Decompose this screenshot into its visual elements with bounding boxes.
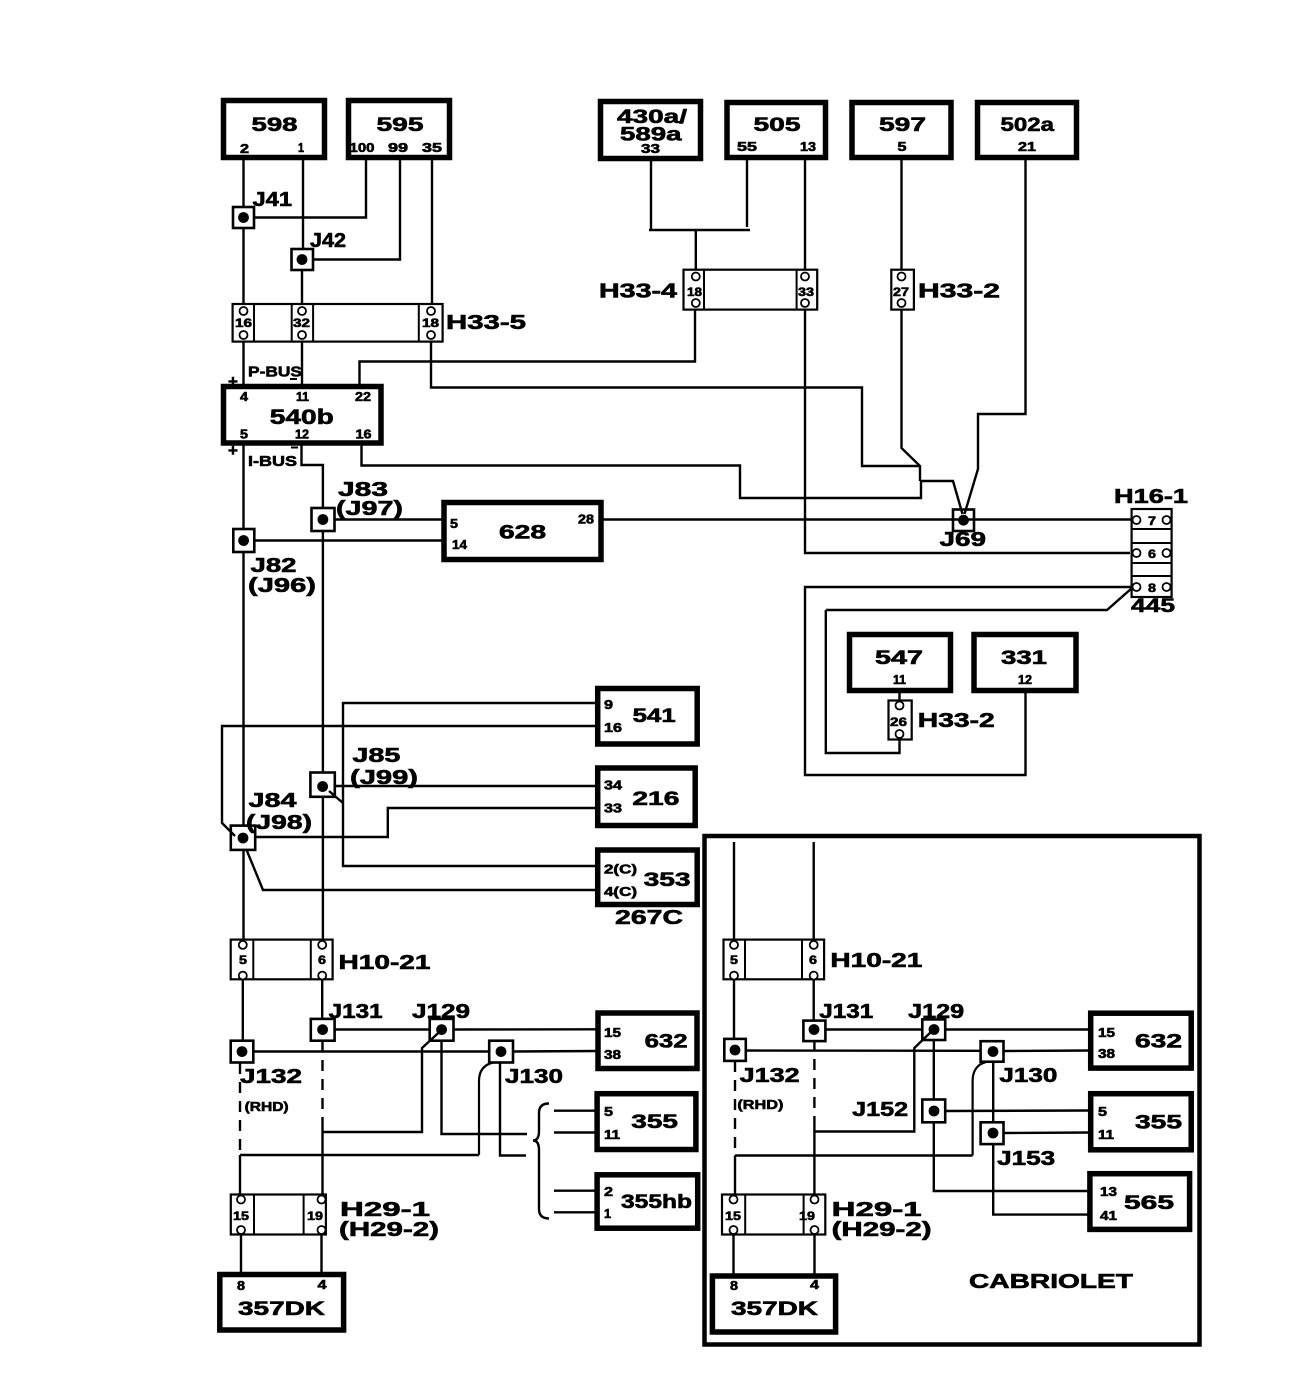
component 430a/589a xyxy=(601,102,701,159)
svg-text:J69: J69 xyxy=(940,529,987,551)
junction J131 xyxy=(311,1019,335,1041)
svg-text:27: 27 xyxy=(893,285,909,299)
wire 502a-21 to J69 xyxy=(965,158,1026,514)
svg-text:J130: J130 xyxy=(999,1065,1057,1087)
wire J132 down dashed (RHD) xyxy=(239,1063,241,1155)
wire H29-1 pin15 to 357DK-8 xyxy=(240,1235,242,1275)
wire J129 to 632-15 xyxy=(454,1028,599,1031)
connector H33-2 (pin 26) xyxy=(889,701,912,740)
cab junction J129 xyxy=(922,1019,945,1040)
wire J130 straight down xyxy=(500,1063,526,1156)
wire J131 column to H29-1 pin19 xyxy=(321,1122,323,1195)
cab wire J130 through J153 xyxy=(992,1062,994,1123)
wire 540b pin22 to H33-4 pin18 xyxy=(360,307,696,386)
cab wire J153 to 565-41 xyxy=(993,1144,1090,1215)
component 357DK xyxy=(220,1275,344,1331)
cab wire H10-21 pin6 to J131 xyxy=(813,980,815,1021)
svg-text:J131: J131 xyxy=(329,1001,383,1023)
svg-text:J130: J130 xyxy=(505,1066,563,1088)
wire H33-2 pin27 to J69 node xyxy=(902,307,921,481)
cab wire J129 to 632-15 xyxy=(945,1028,1090,1030)
svg-text:16: 16 xyxy=(604,721,622,735)
junction J42 xyxy=(292,249,314,270)
wire J132 to J130 xyxy=(254,1050,490,1052)
svg-text:+: + xyxy=(228,441,238,460)
svg-text:267C: 267C xyxy=(615,907,683,929)
wire J132 column to H29-1 pin15 xyxy=(239,1155,241,1195)
svg-text:(J98): (J98) xyxy=(246,812,312,834)
wire J85 down to H10-21 pin6 xyxy=(322,797,324,941)
svg-text:+: + xyxy=(228,372,238,391)
svg-text:15: 15 xyxy=(233,1209,249,1223)
svg-text:J129: J129 xyxy=(412,1001,470,1023)
svg-text:6: 6 xyxy=(809,953,817,967)
svg-text:11: 11 xyxy=(296,390,309,404)
wire 331-12 to H16-1 pin8 xyxy=(805,587,1132,775)
minus near pin12 xyxy=(291,447,298,449)
svg-text:331: 331 xyxy=(1001,648,1048,669)
component 502a xyxy=(978,103,1077,158)
svg-text:41: 41 xyxy=(1100,1209,1117,1223)
cab wire J129 diagonal to left column xyxy=(814,1030,933,1132)
stub to 355-5 xyxy=(554,1109,598,1111)
svg-text:11: 11 xyxy=(1098,1128,1114,1142)
svg-text:8: 8 xyxy=(730,1279,738,1293)
svg-text:2(C): 2(C) xyxy=(604,863,637,877)
svg-text:J132: J132 xyxy=(740,1065,800,1087)
svg-text:34: 34 xyxy=(604,779,622,793)
connector H33-5 xyxy=(233,304,443,342)
junction J82 (J96) xyxy=(233,529,254,552)
wire H33-5 pin18 to J69 node xyxy=(431,339,919,466)
svg-text:(H29-2): (H29-2) xyxy=(832,1219,932,1241)
svg-text:445: 445 xyxy=(1131,596,1176,617)
svg-text:13: 13 xyxy=(1100,1185,1117,1199)
cab wire H29-1 pin15 to 357DK-8 xyxy=(732,1235,734,1277)
cab junction J152 xyxy=(922,1100,945,1123)
wire J82 to 628-14 xyxy=(255,539,445,541)
wire 540b pin5 to J82 (I-BUS) xyxy=(242,443,244,529)
junction J85 (J99) xyxy=(310,773,334,797)
svg-text:55: 55 xyxy=(737,140,757,154)
cab wire J130 to 632-38 xyxy=(1004,1049,1091,1052)
cab wire J153 to 355-11 xyxy=(1004,1131,1091,1134)
svg-text:19: 19 xyxy=(799,1209,815,1223)
svg-text:CABRIOLET: CABRIOLET xyxy=(969,1271,1133,1293)
svg-text:J82: J82 xyxy=(251,555,297,577)
component 598 xyxy=(224,101,325,158)
svg-text:18: 18 xyxy=(422,316,439,330)
wire J130 curve down xyxy=(479,1063,493,1156)
junction J83 (J97) xyxy=(312,508,335,531)
wire 595-35 to H33-5 pin 18 xyxy=(431,158,433,307)
component 595 xyxy=(349,101,450,158)
svg-text:8: 8 xyxy=(1148,581,1156,595)
wire H10-21 pin6 to J131 xyxy=(321,980,323,1019)
wire drop to H33-4 pin18 top xyxy=(695,230,697,272)
stub to 355hb-2 xyxy=(554,1189,598,1191)
svg-text:(J96): (J96) xyxy=(248,575,316,597)
svg-text:(J99): (J99) xyxy=(350,767,418,789)
svg-text:P-BUS: P-BUS xyxy=(248,364,302,381)
cab component 355 xyxy=(1091,1094,1192,1150)
component 632 xyxy=(598,1013,697,1069)
svg-text:33: 33 xyxy=(798,285,814,299)
svg-text:502a: 502a xyxy=(1001,115,1055,136)
svg-text:5: 5 xyxy=(604,1105,613,1119)
svg-text:11: 11 xyxy=(893,673,906,687)
svg-text:505: 505 xyxy=(754,115,802,136)
cab wire top to H10-21 pin5 xyxy=(733,842,735,941)
wire 598-1 to J42 xyxy=(302,158,304,250)
cab component 632 xyxy=(1091,1013,1192,1068)
wire J85 to 216-34 xyxy=(335,785,598,787)
svg-text:355: 355 xyxy=(631,1112,678,1133)
wire H10-21 pin5 to J132 xyxy=(242,980,244,1041)
cab wire J130 curve down xyxy=(973,1062,986,1156)
svg-text:(J97): (J97) xyxy=(336,498,403,520)
svg-text:J152: J152 xyxy=(852,1099,908,1121)
svg-text:11: 11 xyxy=(604,1128,620,1142)
svg-text:33: 33 xyxy=(641,142,660,156)
svg-text:38: 38 xyxy=(604,1048,621,1062)
svg-text:2: 2 xyxy=(240,142,249,156)
svg-text:J42: J42 xyxy=(310,230,346,252)
wire J83 down to J85 xyxy=(322,531,324,773)
svg-text:547: 547 xyxy=(875,648,923,669)
svg-text:540b: 540b xyxy=(270,406,334,429)
cab wire J131 down dashed (RHD) xyxy=(813,1040,815,1122)
wire joining 430a and 505-55 to H33-4 pin18 xyxy=(649,229,750,231)
wire 597-5 to H33-2 pin27 xyxy=(900,158,902,272)
svg-text:16: 16 xyxy=(235,316,252,330)
wire 598-2 to J41 xyxy=(242,158,244,208)
svg-text:(H29-2): (H29-2) xyxy=(339,1219,439,1241)
svg-text:26: 26 xyxy=(890,715,907,729)
wire J130 to 632-38 xyxy=(513,1050,598,1053)
svg-text:541: 541 xyxy=(633,706,677,727)
svg-text:628: 628 xyxy=(499,523,546,544)
component 353 xyxy=(598,850,698,905)
stub to 355-11 xyxy=(554,1131,598,1133)
wire H33-4 pin33 to H16-1 pin6 xyxy=(805,307,1130,553)
svg-text:J84: J84 xyxy=(249,790,298,812)
connector H33-2 (pin 27) xyxy=(891,270,914,310)
svg-text:12: 12 xyxy=(1018,673,1032,687)
svg-text:632: 632 xyxy=(645,1032,688,1053)
svg-text:21: 21 xyxy=(1018,140,1036,154)
svg-text:12: 12 xyxy=(295,428,309,442)
cabriolet border xyxy=(705,836,1200,1345)
cab wire H29-1 pin19 to 357DK-4 xyxy=(813,1235,815,1277)
cab wire J132 to J130 xyxy=(746,1049,981,1052)
svg-text:19: 19 xyxy=(307,1209,323,1223)
wire 505-55 down xyxy=(746,158,748,227)
svg-text:353: 353 xyxy=(644,870,691,891)
svg-text:6: 6 xyxy=(1148,547,1156,561)
wire H29-1 pin19 to 357DK-4 xyxy=(320,1235,322,1275)
svg-text:22: 22 xyxy=(355,390,371,404)
svg-text:J41: J41 xyxy=(253,189,293,211)
svg-text:14: 14 xyxy=(452,538,467,552)
wire J132 to brace horizontal xyxy=(240,1154,479,1156)
svg-text:H16-1: H16-1 xyxy=(1114,486,1188,508)
wire 540b pin12 to J83 xyxy=(302,443,323,508)
wire J82 down to J84 xyxy=(242,552,244,826)
svg-text:595: 595 xyxy=(377,115,425,136)
wire J129 down to brace xyxy=(442,1041,528,1134)
svg-text:565: 565 xyxy=(1124,1193,1175,1214)
junction J41 xyxy=(233,207,254,228)
svg-text:13: 13 xyxy=(800,140,816,154)
svg-text:8: 8 xyxy=(237,1279,245,1293)
cab connector H29-1 (H29-2) xyxy=(722,1195,825,1235)
wire 505-13 to H33-4 pin33 xyxy=(804,158,806,272)
cab junction J131 xyxy=(803,1021,825,1042)
svg-text:597: 597 xyxy=(879,115,926,136)
wire 541-9 to 353-2C via J85 xyxy=(343,703,598,866)
svg-text:J129: J129 xyxy=(908,1001,964,1023)
svg-text:632: 632 xyxy=(1135,1032,1182,1053)
junction J84 (J98) xyxy=(231,826,255,850)
svg-text:355hb: 355hb xyxy=(621,1192,692,1213)
component 505 xyxy=(727,103,826,158)
connector H10-21 xyxy=(231,940,333,980)
svg-text:32: 32 xyxy=(293,316,310,330)
connector H33-4 xyxy=(684,270,818,310)
wire 547-11 to H33-2 pin26 xyxy=(898,691,900,701)
svg-text:1: 1 xyxy=(298,141,304,155)
junction J130 xyxy=(489,1041,513,1063)
svg-text:2: 2 xyxy=(604,1185,613,1199)
cab wire J129 through J152 xyxy=(933,1040,935,1100)
svg-text:18: 18 xyxy=(687,285,702,299)
wire 430a/589a pin33 down xyxy=(650,158,652,229)
svg-text:5: 5 xyxy=(239,953,247,967)
cab wire J131 to J129 xyxy=(825,1028,922,1030)
svg-text:7: 7 xyxy=(1148,514,1156,528)
wire 628-28 to H16-1 pin7 through J69 xyxy=(601,518,1132,520)
wire J129 diagonal to left column xyxy=(323,1030,442,1132)
wire H33-2 pin26 to H16-1 pin8 xyxy=(826,588,1132,610)
connector H29-1 (H29-2) xyxy=(231,1195,326,1235)
wire J131 down dashed (RHD) xyxy=(321,1041,323,1122)
svg-text:216: 216 xyxy=(632,789,679,810)
svg-text:J132: J132 xyxy=(240,1066,302,1088)
wire J131 to J129 xyxy=(335,1028,430,1030)
svg-text:100: 100 xyxy=(350,141,375,155)
svg-text:357DK: 357DK xyxy=(731,1299,818,1320)
svg-text:1: 1 xyxy=(604,1207,611,1221)
svg-text:J153: J153 xyxy=(997,1148,1055,1170)
svg-text:28: 28 xyxy=(578,513,594,527)
component 547 xyxy=(850,635,951,691)
svg-text:15: 15 xyxy=(1098,1026,1115,1040)
svg-text:H29-1: H29-1 xyxy=(832,1199,922,1221)
svg-text:H29-1: H29-1 xyxy=(340,1199,430,1221)
svg-text:5: 5 xyxy=(730,953,738,967)
svg-text:I-BUS: I-BUS xyxy=(248,453,297,470)
svg-text:H10-21: H10-21 xyxy=(830,950,922,972)
svg-text:35: 35 xyxy=(422,141,442,155)
cab wire H10-21 pin5 to J132 xyxy=(733,980,735,1039)
svg-text:(RHD): (RHD) xyxy=(737,1097,783,1112)
component 628 xyxy=(444,503,601,560)
svg-text:9: 9 xyxy=(604,698,613,712)
junction J132 xyxy=(231,1041,254,1063)
svg-text:33: 33 xyxy=(604,802,622,816)
svg-text:4: 4 xyxy=(318,1278,327,1292)
svg-text:H33-5: H33-5 xyxy=(446,312,526,334)
junction J69 xyxy=(953,510,974,532)
svg-text:(RHD): (RHD) xyxy=(245,1099,289,1114)
cab wire J152 to 565-13 xyxy=(934,1122,1090,1191)
cab junction J153 xyxy=(981,1122,1004,1144)
svg-text:5: 5 xyxy=(450,517,458,531)
wire H33-5 pin32 to 540b pin11 xyxy=(301,339,303,386)
cab wire J131 column to H29-1 pin19 xyxy=(813,1122,815,1196)
component 216 xyxy=(598,768,696,826)
wire 541-16 to J84 xyxy=(222,726,598,836)
wire J83 to 628-5 xyxy=(335,518,445,520)
svg-text:H33-2: H33-2 xyxy=(918,710,995,732)
svg-text:H33-4: H33-4 xyxy=(599,281,678,303)
svg-text:5: 5 xyxy=(240,428,248,442)
wire J41 to H33-5 pin 16 xyxy=(242,228,244,307)
wire J84 to 216-33 xyxy=(256,808,598,837)
cab wire J132 down dashed (RHD) xyxy=(734,1061,736,1156)
svg-text:H33-2: H33-2 xyxy=(918,281,1000,303)
svg-text:99: 99 xyxy=(388,141,408,155)
svg-text:5: 5 xyxy=(1098,1105,1107,1119)
wire 540b pin16 to J69 xyxy=(362,443,963,514)
minus near pin11 xyxy=(290,378,297,380)
svg-text:5: 5 xyxy=(898,140,907,154)
cab component 357DK xyxy=(712,1276,835,1332)
connector H16-1 xyxy=(1132,509,1172,597)
wire J85 diagonal tap xyxy=(329,791,343,803)
junction J129 xyxy=(430,1019,454,1041)
svg-text:J131: J131 xyxy=(819,1001,873,1023)
cab wire J152 to 355-5 xyxy=(945,1109,1090,1112)
svg-text:15: 15 xyxy=(604,1026,621,1040)
component 597 xyxy=(852,103,951,158)
component 541 xyxy=(598,689,698,745)
wire J84 to 353-4C xyxy=(247,851,598,890)
cab junction J132 xyxy=(724,1039,746,1061)
wire J42 to 595-99 xyxy=(313,158,400,260)
svg-text:355: 355 xyxy=(1135,1113,1183,1134)
svg-text:4: 4 xyxy=(810,1278,819,1292)
stub to 355hb-1 xyxy=(554,1211,598,1213)
wire J42 to H33-5 pin 32 xyxy=(301,270,303,307)
cab wire top to H10-21 pin6 xyxy=(813,842,815,941)
wire J41 to 595-100 xyxy=(254,158,366,218)
svg-text:38: 38 xyxy=(1098,1047,1115,1061)
svg-text:598: 598 xyxy=(252,115,298,136)
wire J84 down to H10-21 pin5 xyxy=(242,850,244,941)
svg-text:15: 15 xyxy=(725,1209,741,1223)
cab component 565 xyxy=(1090,1174,1190,1230)
component 331 xyxy=(974,635,1076,691)
svg-text:16: 16 xyxy=(356,428,372,442)
component 355 xyxy=(597,1094,696,1150)
brace for 355/355hb xyxy=(533,1104,549,1219)
svg-text:J85: J85 xyxy=(352,745,400,767)
svg-text:357DK: 357DK xyxy=(238,1299,325,1320)
svg-text:4(C): 4(C) xyxy=(604,885,637,899)
svg-text:H10-21: H10-21 xyxy=(339,952,431,974)
cab wire J132 long horizontal xyxy=(735,1154,973,1156)
component 355hb xyxy=(597,1175,698,1228)
wire H33-2 pin26 loop xyxy=(826,610,900,753)
cab junction J130 xyxy=(981,1041,1004,1062)
svg-text:4: 4 xyxy=(240,390,248,404)
cab connector H10-21 xyxy=(724,940,825,980)
cab wire J132 column to H29-1 pin15 xyxy=(734,1156,736,1196)
svg-text:6: 6 xyxy=(318,953,326,967)
wire H33-5 pin16 to 540b pin4 (P-BUS) xyxy=(242,339,244,386)
component 540b xyxy=(224,387,382,444)
